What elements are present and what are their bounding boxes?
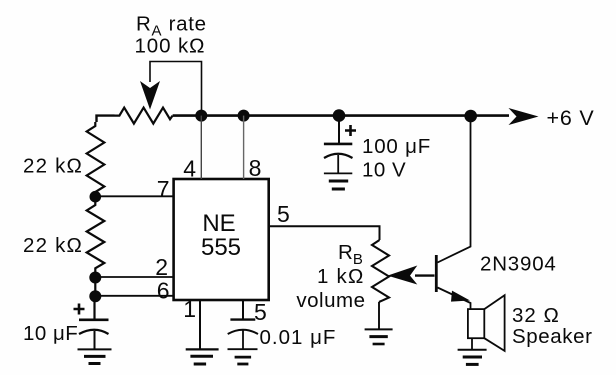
speaker cone xyxy=(484,295,504,351)
wire pin6 xyxy=(95,295,173,297)
transistor emitter xyxy=(438,288,471,310)
node dot pin7 junction xyxy=(90,191,102,203)
+6V arrow xyxy=(509,108,539,125)
wire pin5 output xyxy=(269,226,380,240)
wire pin8 xyxy=(243,116,245,179)
svg-text:22 kΩ: 22 kΩ xyxy=(23,234,83,257)
svg-text:0.01 μF: 0.01 μF xyxy=(260,326,337,349)
svg-text:7: 7 xyxy=(157,176,170,202)
wire to 10uF xyxy=(93,296,95,319)
ground 0.01uF xyxy=(228,348,258,350)
svg-text:100 μF: 100 μF xyxy=(362,135,431,158)
svg-text:volume: volume xyxy=(296,289,365,312)
transistor emitter arrow xyxy=(451,291,470,302)
node dot collector junction xyxy=(464,110,477,123)
wire 100uF xyxy=(338,116,340,144)
ground 100uF xyxy=(324,172,352,174)
potentiometer RA 100k xyxy=(115,108,173,124)
svg-text:2: 2 xyxy=(155,254,168,280)
svg-text:Speaker: Speaker xyxy=(512,325,593,348)
svg-text:22 kΩ: 22 kΩ xyxy=(23,155,83,178)
svg-text:32 Ω: 32 Ω xyxy=(512,304,560,327)
node dot pot/pin4 junction xyxy=(195,110,207,122)
ground 10uF xyxy=(78,348,112,350)
wire RB to ground xyxy=(378,302,380,329)
ground speaker xyxy=(458,349,487,351)
ground RB xyxy=(365,328,393,330)
svg-text:4: 4 xyxy=(183,156,196,182)
transistor Q1 2N3904 base bar xyxy=(435,255,438,292)
wire pin4 xyxy=(200,116,202,179)
node dot pin6 junction xyxy=(89,290,101,302)
svg-text:5: 5 xyxy=(277,201,290,227)
svg-text:5: 5 xyxy=(254,299,267,325)
wire 0.01uF to ground xyxy=(242,330,244,349)
capacitor C 10uF plus sign xyxy=(74,304,85,315)
node dot pin2 junction xyxy=(89,272,101,284)
svg-text:10 μF: 10 μF xyxy=(23,322,78,345)
wire 100uF to ground xyxy=(337,155,339,173)
capacitor 100uF plus sign xyxy=(345,125,356,136)
potentiometer RB 1k xyxy=(372,240,389,302)
wire pin2 xyxy=(95,276,173,278)
svg-text:+6 V: +6 V xyxy=(547,106,595,130)
wire RA wiper loop xyxy=(150,62,202,111)
wire left rail corner xyxy=(97,116,115,122)
RB wiper arrow xyxy=(388,266,418,285)
capacitor 10uF plates xyxy=(79,318,109,321)
svg-text:10 V: 10 V xyxy=(362,159,406,182)
svg-text:100 kΩ: 100 kΩ xyxy=(135,35,206,58)
node dot 100uF junction xyxy=(333,109,346,122)
transistor collector xyxy=(438,116,471,263)
svg-text:8: 8 xyxy=(249,155,262,181)
wire wiper to base xyxy=(415,274,435,276)
wire speaker to ground xyxy=(471,338,473,349)
svg-text:1: 1 xyxy=(183,296,196,322)
node dot pin8 junction xyxy=(238,110,250,122)
resistor 22k lower xyxy=(87,197,105,278)
wire pin1 to ground xyxy=(199,300,201,349)
svg-text:6: 6 xyxy=(157,278,170,304)
resistor 22k upper xyxy=(87,122,105,197)
ground pin1 xyxy=(186,348,219,350)
wire pin5 bottom xyxy=(242,300,244,319)
speaker driver box xyxy=(468,309,484,338)
svg-text:2N3904: 2N3904 xyxy=(480,253,557,276)
wire 10uF to ground xyxy=(94,331,96,349)
svg-text:NE: NE xyxy=(202,210,235,237)
wire between dots xyxy=(94,278,96,297)
capacitor 0.01uF plates xyxy=(230,318,255,320)
wire top rail xyxy=(173,114,509,117)
capacitor 100uF plates xyxy=(324,143,352,146)
svg-text:1 kΩ: 1 kΩ xyxy=(317,265,364,288)
op-amp U1 NE555 box xyxy=(174,179,269,300)
RA wiper arrow xyxy=(140,81,160,110)
wire pin7 xyxy=(95,195,173,197)
svg-text:555: 555 xyxy=(201,234,241,261)
